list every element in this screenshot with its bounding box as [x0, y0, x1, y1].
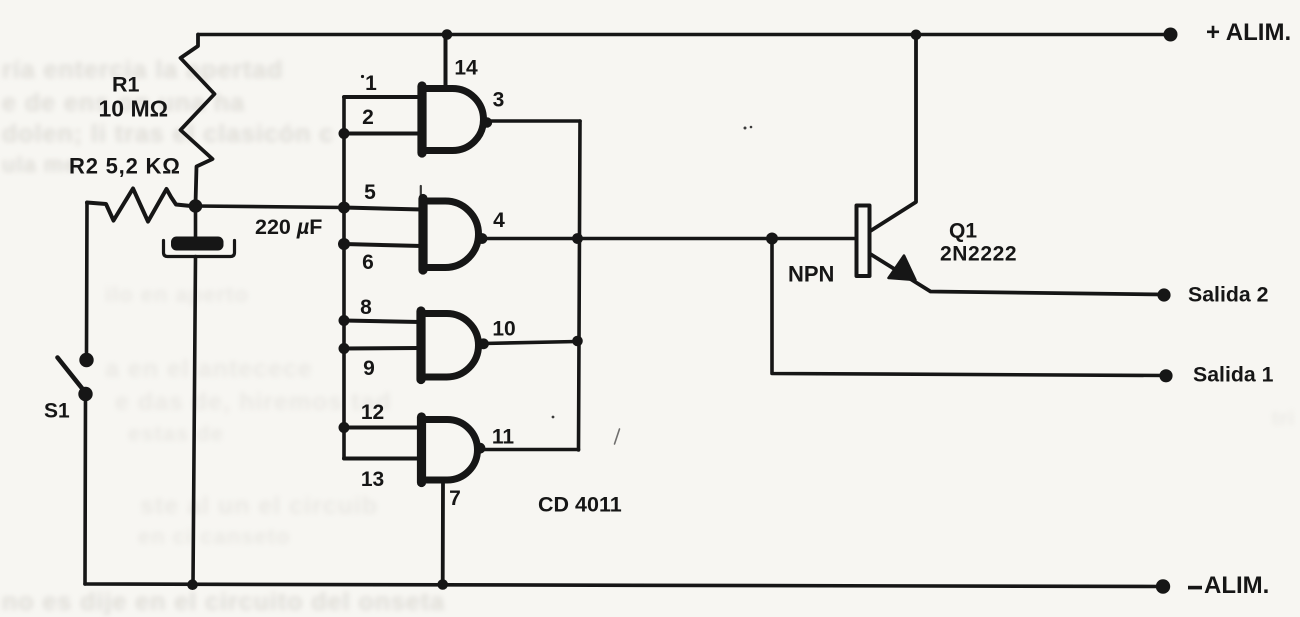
- stray scan dots: [744, 127, 747, 130]
- node junction output/salida1: [766, 233, 778, 245]
- capacitor C1 220uF top plate: [171, 237, 224, 251]
- node Salida 1 terminal: [1159, 369, 1172, 382]
- wire salida1 from base node: [772, 239, 1166, 376]
- svg-text:Salida 2: Salida 2: [1188, 283, 1269, 307]
- svg-text:2: 2: [362, 106, 374, 129]
- svg-text:ALIM.: ALIM.: [1204, 572, 1269, 599]
- node junction pin2: [339, 128, 350, 139]
- node S1 lower contact: [78, 387, 92, 401]
- node junction feedback/pin10: [572, 336, 583, 347]
- svg-text:R2 5,2 KΩ: R2 5,2 KΩ: [69, 154, 181, 179]
- wire pin 8: [344, 321, 420, 323]
- node junction pin14/rail: [442, 29, 453, 40]
- svg-text:CD 4011: CD 4011: [538, 493, 622, 517]
- node A junction R1/R2/C1: [189, 199, 203, 213]
- svg-text:4: 4: [493, 209, 505, 232]
- node junction pin8: [339, 315, 350, 326]
- svg-text:13: 13: [361, 468, 384, 491]
- wire +ALIM rail: [198, 33, 1170, 36]
- transistor Q1 emitter arrow: [889, 256, 916, 281]
- svg-text:2N2222: 2N2222: [940, 243, 1017, 266]
- svg-text:220 µF: 220 µF: [255, 215, 322, 239]
- svg-text:Salida 1: Salida 1: [1193, 363, 1274, 387]
- svg-text:10: 10: [492, 318, 515, 341]
- wire input bus: [342, 97, 346, 459]
- wire pin 12: [344, 426, 421, 430]
- wire U1C output to feedback: [484, 342, 578, 344]
- node +ALIM terminal: [1164, 28, 1178, 42]
- wire S1 lower lead: [83, 394, 87, 584]
- capacitor C1 bottom plate: [164, 241, 235, 257]
- node junction feedback/output: [572, 233, 583, 244]
- op-amp U1D NAND gate 4: [421, 420, 478, 481]
- resistor R1 10M: [181, 35, 215, 205]
- svg-text:R1: R1: [112, 73, 140, 97]
- wire U1D output to feedback: [480, 448, 579, 452]
- resistor R2 5,2K: [87, 189, 191, 222]
- wire node A to gate bus: [196, 206, 345, 208]
- node -ALIM terminal: [1156, 579, 1170, 593]
- svg-text:1: 1: [365, 72, 377, 95]
- op-amp U1A NAND gate 1: [422, 89, 484, 151]
- node U1A output bubble pin3: [482, 117, 492, 127]
- node junction pin12: [339, 422, 350, 433]
- svg-text:12: 12: [361, 401, 384, 424]
- svg-text:14: 14: [454, 57, 478, 80]
- wire C1 bottom lead to -ALIM rail: [193, 257, 196, 585]
- wire pin 2: [344, 132, 421, 136]
- switch S1 blade: [58, 358, 86, 393]
- wire -ALIM rail: [85, 584, 1163, 587]
- wire pin 1: [344, 95, 421, 99]
- pin label 1: [361, 75, 364, 78]
- wire pin 6: [344, 244, 422, 246]
- wire feedback vertical: [579, 121, 581, 450]
- wire Q1 emitter to Salida 2: [870, 254, 1165, 295]
- svg-text:3: 3: [493, 89, 505, 112]
- svg-text:6: 6: [362, 251, 374, 274]
- svg-text:9: 9: [363, 357, 375, 380]
- node U1C output bubble pin10: [478, 338, 489, 349]
- svg-text:Q1: Q1: [949, 220, 977, 243]
- stray scan tick above U1B: [420, 186, 422, 197]
- node junction pin7/-ALIM: [437, 579, 448, 590]
- svg-text:10 MΩ: 10 MΩ: [99, 96, 169, 122]
- node U1B output bubble pin4: [477, 233, 488, 244]
- transistor Q1 base bar: [857, 206, 870, 277]
- node Salida 2 terminal: [1157, 288, 1170, 301]
- svg-text:+ ALIM.: + ALIM.: [1206, 19, 1291, 46]
- wire U1A output to feedback: [487, 119, 580, 123]
- svg-text:S1: S1: [44, 400, 70, 423]
- wire U1B output to Q1 base: [482, 237, 855, 241]
- wire pin 14 stub: [444, 35, 448, 88]
- node S1 upper contact: [79, 353, 93, 367]
- svg-text:11: 11: [492, 426, 515, 449]
- node junction collector/rail: [911, 30, 922, 41]
- label -ALIM. dash: [1188, 586, 1202, 590]
- svg-text:8: 8: [360, 296, 372, 319]
- op-amp U1B NAND gate 2: [423, 201, 479, 268]
- stray scan slash right of U1D: [615, 429, 620, 444]
- wire pin 7 stub to -ALIM: [441, 482, 445, 584]
- node junction pin5: [338, 202, 350, 214]
- wire pin 13: [344, 457, 421, 461]
- wire pin 5: [344, 208, 422, 210]
- svg-text:NPN: NPN: [788, 262, 834, 287]
- node junction pin6: [338, 238, 350, 250]
- svg-text:7: 7: [449, 487, 461, 510]
- wire S1 upper lead: [85, 203, 89, 353]
- wire C1 top lead: [194, 206, 198, 238]
- op-amp U1C NAND gate 3: [421, 314, 479, 378]
- wire Q1 collector: [870, 35, 917, 232]
- node junction C1/-ALIM: [187, 579, 198, 590]
- wire pin 9: [344, 346, 420, 351]
- node junction pin9: [339, 343, 350, 354]
- node U1D output bubble pin11: [475, 443, 486, 454]
- svg-text:5: 5: [364, 181, 376, 204]
